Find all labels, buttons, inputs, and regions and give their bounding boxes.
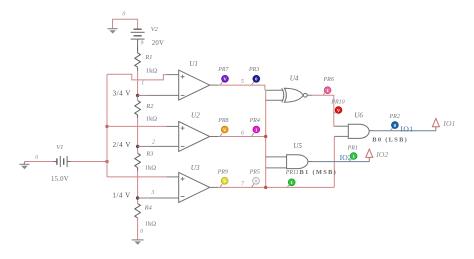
resistor R4 xyxy=(135,204,141,218)
wire R4 to ground xyxy=(137,218,139,240)
svg-text:6: 6 xyxy=(241,130,244,136)
op-amp U2 xyxy=(160,122,218,152)
gate U6 AND xyxy=(348,124,373,138)
wire U5 output to IO2 xyxy=(312,161,369,163)
probe PR7 xyxy=(220,75,228,85)
wire chain R1 to node 1 to R2 xyxy=(137,71,139,101)
probe PR2 xyxy=(390,122,398,131)
wire bus to U3 plus xyxy=(107,176,167,178)
probe PR10 xyxy=(334,107,342,114)
svg-text:1kΩ: 1kΩ xyxy=(145,165,157,172)
svg-text:PR10: PR10 xyxy=(330,100,344,106)
junction dot net 7 xyxy=(264,186,267,189)
svg-text:PR1: PR1 xyxy=(347,146,358,152)
wire stub U6 input B xyxy=(334,135,348,137)
wire U4 output xyxy=(307,94,312,96)
wire ground to V1 xyxy=(24,161,53,163)
svg-text:3/4 V: 3/4 V xyxy=(113,90,131,98)
svg-text:U4: U4 xyxy=(290,75,299,83)
svg-text:U5: U5 xyxy=(293,142,302,150)
ground top xyxy=(108,29,118,34)
svg-text:B0 (LSB): B0 (LSB) xyxy=(372,137,408,144)
gate U5 AND xyxy=(287,155,312,169)
battery V1 xyxy=(53,156,70,167)
node 2 junction dot xyxy=(136,145,139,148)
svg-text:9: 9 xyxy=(141,40,144,46)
svg-text:1kΩ: 1kΩ xyxy=(146,68,158,75)
svg-text:5: 5 xyxy=(241,79,244,85)
wire net 0 top loop xyxy=(113,19,138,29)
node 3 junction dot xyxy=(136,196,139,199)
probe PR4 xyxy=(252,126,260,136)
wire chain R3 to node 3 to R4 xyxy=(137,171,139,204)
resistor R2 xyxy=(135,101,141,119)
op-amp U1 xyxy=(160,70,218,100)
connector IO1 stem xyxy=(435,127,437,131)
svg-text:PR8: PR8 xyxy=(217,118,228,124)
wire bus to U1 plus with jog xyxy=(107,74,167,80)
wire vertical bus nets 5-6-7 xyxy=(265,90,267,187)
connector IO2 stem xyxy=(368,157,370,161)
svg-text:PR4: PR4 xyxy=(249,117,260,124)
svg-text:15.0V: 15.0V xyxy=(51,176,69,183)
wire U6 output to IO1 xyxy=(373,130,436,132)
wire chain R2 to node 2 to R3 xyxy=(137,118,139,153)
resistor R3 xyxy=(135,153,141,171)
svg-text:R4: R4 xyxy=(144,205,152,212)
svg-text:U6: U6 xyxy=(354,112,363,120)
svg-text:1: 1 xyxy=(141,81,144,87)
wire U3 output net 7 xyxy=(218,186,334,188)
svg-text:IO1: IO1 xyxy=(400,124,413,133)
svg-text:PR5: PR5 xyxy=(249,169,260,175)
svg-text:20V: 20V xyxy=(152,40,164,47)
wire input bus vertical xyxy=(106,74,108,177)
wire bus to U2 plus xyxy=(107,125,167,127)
svg-text:PR9: PR9 xyxy=(217,169,228,175)
node 1 junction dot xyxy=(136,94,139,97)
probe PR3 xyxy=(252,75,260,85)
wire stub U5 input A xyxy=(266,156,287,158)
svg-text:R2: R2 xyxy=(145,103,154,110)
ground bottom xyxy=(132,240,144,245)
svg-text:IO2: IO2 xyxy=(375,150,388,159)
wire stub U6 input A xyxy=(334,125,349,127)
op-amp U3 xyxy=(160,172,218,202)
svg-text:PR6: PR6 xyxy=(323,77,334,83)
connector IO2 triangle xyxy=(366,149,373,157)
probe PR6 xyxy=(323,87,331,95)
probe PR8 xyxy=(220,126,228,136)
svg-text:PR3: PR3 xyxy=(248,67,259,73)
wire node 2 to U2 minus xyxy=(138,145,149,147)
svg-text:1kΩ: 1kΩ xyxy=(145,221,157,228)
probe PR11 xyxy=(287,179,295,187)
wire stub XNOR input A xyxy=(266,89,283,91)
wire node 1 to U1 minus xyxy=(138,94,149,96)
wire stub XNOR input B xyxy=(266,99,283,101)
svg-text:2: 2 xyxy=(152,140,155,146)
probe PR5 xyxy=(252,177,260,187)
svg-text:B1 (MSB): B1 (MSB) xyxy=(300,169,338,176)
gate U4 XNOR xyxy=(282,88,307,102)
svg-text:PR7: PR7 xyxy=(217,67,229,73)
junction dot net 6 xyxy=(264,135,267,138)
svg-text:7: 7 xyxy=(241,182,245,188)
svg-text:0: 0 xyxy=(122,12,125,18)
svg-text:V2: V2 xyxy=(151,26,159,33)
svg-text:U2: U2 xyxy=(191,112,200,120)
wire V1 to bus node 4 xyxy=(71,161,108,163)
svg-text:PR11: PR11 xyxy=(285,170,299,176)
svg-text:1/4 V: 1/4 V xyxy=(112,192,130,200)
probe PR9 xyxy=(220,177,228,187)
svg-text:0: 0 xyxy=(140,229,143,235)
probe PR1 xyxy=(349,153,357,162)
svg-text:0: 0 xyxy=(35,155,38,161)
wire net 7 up to U6 input B xyxy=(333,136,335,187)
svg-text:U1: U1 xyxy=(189,60,198,68)
connector IO1 triangle xyxy=(432,118,439,126)
svg-text:PR2: PR2 xyxy=(389,114,400,120)
svg-text:U3: U3 xyxy=(191,164,200,172)
junction dot V1 bus xyxy=(105,160,108,163)
svg-text:1kΩ: 1kΩ xyxy=(146,116,158,123)
svg-text:R1: R1 xyxy=(144,54,152,61)
ground left xyxy=(19,162,29,170)
wire stub U5 input B xyxy=(266,167,287,169)
svg-text:2/4 V: 2/4 V xyxy=(113,141,131,149)
battery V2 xyxy=(131,29,145,45)
wire U2 output net 6 xyxy=(218,136,266,138)
svg-text:R3: R3 xyxy=(145,151,153,158)
junction dot bus U2 xyxy=(105,125,108,128)
svg-text:V1: V1 xyxy=(56,144,63,151)
svg-text:3: 3 xyxy=(150,190,154,196)
resistor R1 xyxy=(135,45,141,71)
svg-text:IO1: IO1 xyxy=(442,119,455,128)
wire U1 output net 5 xyxy=(218,85,265,90)
wire node 3 to U3 minus xyxy=(138,197,149,199)
